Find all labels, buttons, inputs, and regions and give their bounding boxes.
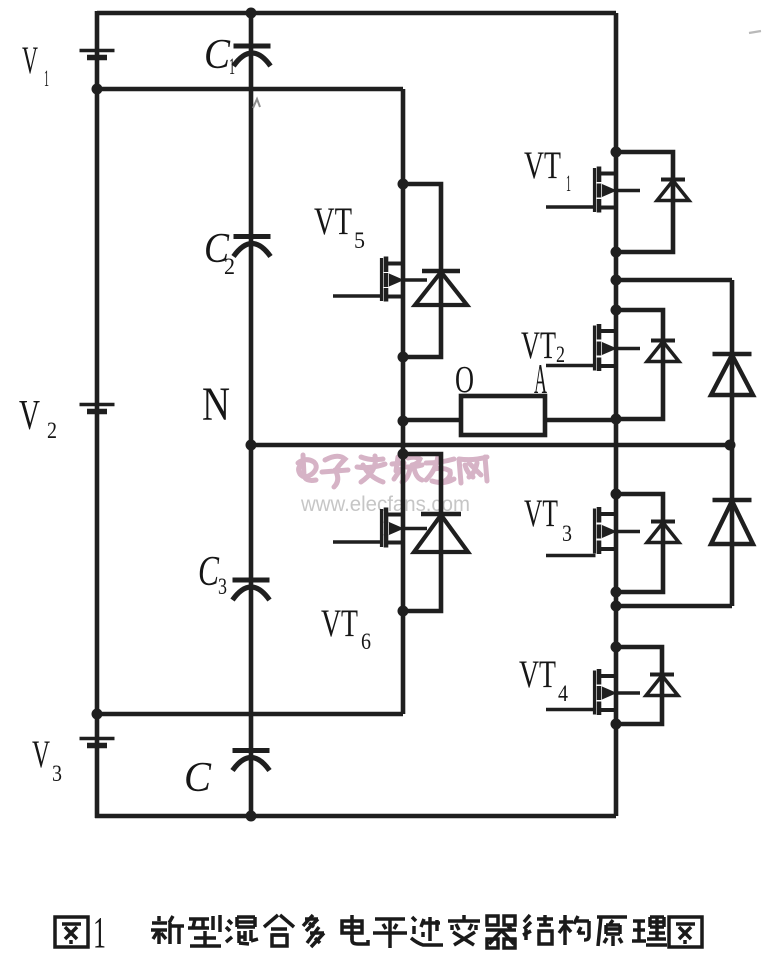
wire middle dc-link rail [97, 87, 403, 92]
diode VD3 (VT3 antiparallel) [647, 522, 679, 543]
label V1 [22, 39, 49, 91]
wire VT6 diode loop [403, 454, 441, 611]
wire phase leg VT5/VT6 [401, 89, 406, 714]
svg-text:VT: VT [524, 144, 561, 187]
diode clamp diode lower [711, 500, 753, 544]
wire VT4 diode loop [616, 647, 662, 724]
diode VD5 (VT5 antiparallel) [415, 271, 467, 305]
battery V1 [80, 51, 115, 58]
wire load A [545, 418, 616, 423]
svg-text:1: 1 [566, 171, 571, 196]
svg-text:VT: VT [524, 492, 558, 535]
wire VT5 diode loop [403, 184, 441, 357]
label VT5 [314, 200, 365, 253]
watermark text (elecfans) [298, 455, 487, 487]
wire left rail [95, 11, 100, 818]
diode VD4 (VT4 antiparallel) [646, 675, 678, 696]
label VT2 [521, 324, 565, 367]
wire main right leg [614, 13, 619, 816]
svg-text:1: 1 [44, 66, 49, 91]
battery V3 [80, 739, 115, 746]
svg-text:V: V [19, 393, 40, 439]
svg-text:C: C [204, 32, 231, 78]
svg-text:6: 6 [361, 629, 371, 654]
transistor VT2 (MOSFET) [546, 324, 640, 371]
svg-text:C: C [184, 755, 212, 801]
label VT4 [519, 653, 568, 706]
transistor VT5 (MOSFET) [333, 257, 427, 302]
svg-text:A: A [534, 357, 547, 403]
label C2 [204, 226, 235, 279]
wire top rail [97, 11, 616, 16]
wire VT3 diode loop [616, 494, 663, 592]
diode clamp diode upper [711, 354, 753, 395]
label C1 [204, 32, 235, 79]
wire clamp diode top [616, 278, 732, 283]
wire clamp diode leg [730, 280, 735, 606]
label VT3 [524, 492, 572, 546]
transistor VT4 (MOSFET) [546, 669, 640, 715]
svg-text:C: C [198, 549, 220, 595]
svg-text:VT: VT [519, 653, 556, 696]
transistor VT1 (MOSFET) [546, 167, 640, 213]
wire V3 to VT6 source [97, 712, 403, 717]
svg-text:5: 5 [354, 228, 365, 253]
load resistor O-A [461, 396, 545, 435]
scan artifact arrow [253, 99, 260, 108]
wire VT2 diode loop [616, 310, 663, 419]
wire clamp diode bottom [616, 604, 732, 609]
svg-text:V: V [32, 733, 50, 776]
label V3 [32, 733, 62, 786]
battery V2 [80, 405, 115, 412]
capacitor C2 [234, 237, 271, 257]
svg-text:3: 3 [218, 574, 227, 599]
svg-text:4: 4 [558, 681, 568, 706]
svg-text:O: O [455, 359, 474, 401]
label V2 [19, 393, 57, 443]
svg-text:3: 3 [562, 521, 572, 546]
capacitor C1 [234, 46, 271, 66]
diode VD2 (VT2 antiparallel) [647, 341, 679, 362]
svg-text:V: V [22, 39, 38, 82]
svg-text:N: N [202, 378, 230, 431]
svg-text:3: 3 [52, 761, 62, 786]
wire bottom rail [95, 814, 616, 819]
svg-text:VT: VT [321, 602, 358, 645]
wire VT1 diode loop [616, 152, 673, 252]
svg-text:1: 1 [229, 54, 235, 79]
diode VD1 (VT1 antiparallel) [657, 180, 689, 201]
wire N rail [251, 443, 732, 448]
label C3 [198, 549, 227, 599]
svg-text:VT: VT [314, 200, 352, 243]
svg-text:2: 2 [47, 418, 57, 443]
label VT6 [321, 602, 371, 654]
label VT1 [524, 144, 571, 196]
caption 图1 新型混合多电平逆变器结构原理图 [55, 908, 702, 957]
wire capacitor chain [249, 13, 254, 816]
transistor VT3 (MOSFET) [546, 507, 640, 556]
capacitor C [233, 751, 270, 771]
diode VD6 (VT6 antiparallel) [414, 514, 468, 552]
wire load O [403, 418, 461, 423]
svg-text:2: 2 [556, 342, 565, 367]
scan artifact dash [749, 31, 761, 33]
svg-text:1: 1 [93, 908, 106, 957]
transistor VT6 (MOSFET) [333, 508, 427, 548]
svg-text:2: 2 [224, 254, 235, 279]
capacitor C3 [233, 580, 270, 600]
